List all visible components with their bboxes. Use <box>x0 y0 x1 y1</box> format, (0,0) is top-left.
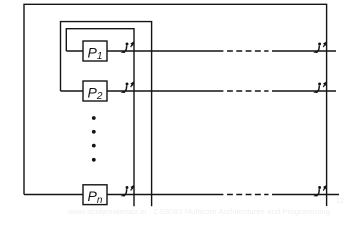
svg-text:12: 12 <box>336 198 344 205</box>
svg-text:www.studymaterialz.in - CS8083: www.studymaterialz.in - CS8083 Multicore… <box>67 207 330 216</box>
